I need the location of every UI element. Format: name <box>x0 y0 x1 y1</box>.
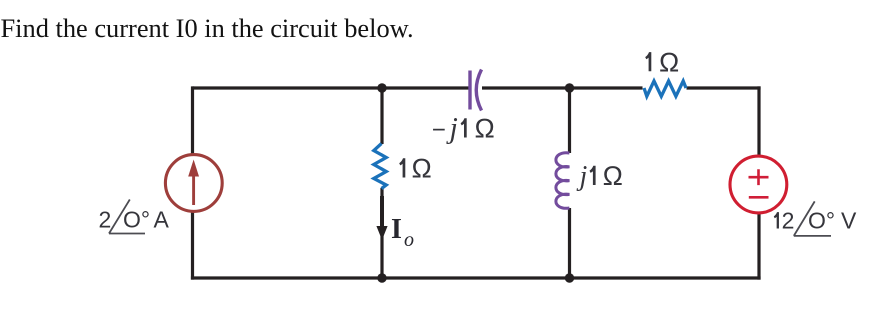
wire bottom <box>191 276 761 279</box>
capacitor C1 curved right plate <box>476 70 481 111</box>
svg-text:2: 2 <box>99 207 112 233</box>
svg-text:o: o <box>404 229 414 251</box>
node dot bottom of branch 1 <box>377 273 386 282</box>
svg-text:2: 2 <box>782 208 795 234</box>
svg-text:j: j <box>577 161 588 192</box>
wire top-right segment (resistor R2 to corner) <box>687 86 761 89</box>
svg-text:Ω: Ω <box>659 47 680 77</box>
wire branch 1 upper (above resistor R1) <box>380 88 383 144</box>
svg-text:O°: O° <box>123 207 150 233</box>
label j1 ohm (inductor) <box>577 161 624 192</box>
svg-text:V: V <box>841 208 857 234</box>
wire branch 2 lower (below inductor) <box>568 208 571 278</box>
label 2 angle 0 A <box>99 200 170 234</box>
inductor L1 (purple coil) <box>556 153 570 208</box>
svg-text:Find the current I0 in the cir: Find the current I0 in the circuit below… <box>1 13 414 43</box>
svg-text:−: − <box>432 117 446 144</box>
svg-text:Ω: Ω <box>602 161 623 191</box>
voltage source plus sign <box>749 169 769 185</box>
svg-text:O°: O° <box>808 208 835 234</box>
svg-text:I: I <box>391 214 402 245</box>
node dot bottom of branch 2 <box>565 273 574 282</box>
wire branch 1 lower (below resistor R1, through Io arrow) <box>380 188 383 278</box>
svg-text:Ω: Ω <box>474 114 495 144</box>
node dot top of branch 2 <box>565 83 574 92</box>
label 12 angle 0 V <box>774 201 857 236</box>
voltage source circle <box>730 156 787 213</box>
wire right vertical above voltage source <box>757 86 760 156</box>
svg-text:j: j <box>446 112 458 145</box>
current source arrow <box>188 160 199 206</box>
node dot top of branch 1 <box>377 83 386 92</box>
capacitor C1 (purple) left plate <box>468 71 471 110</box>
resistor R1 1ohm vertical (blue zigzag) <box>374 144 386 189</box>
label -j1 ohm (capacitor) <box>432 112 495 145</box>
wire left vertical below current source <box>191 211 194 279</box>
svg-text:Ω: Ω <box>411 154 432 184</box>
wire top-middle segment (capacitor right plate to resistor R2) <box>482 86 643 89</box>
current source circle <box>165 155 222 212</box>
resistor R2 1ohm horizontal (blue zigzag) <box>644 81 686 96</box>
wire top-left segment <box>193 86 471 89</box>
Io arrow on branch 1 <box>376 196 387 240</box>
wire branch 2 upper (above inductor) <box>568 88 571 153</box>
label 1 ohm (horizontal resistor) <box>645 52 651 71</box>
wire left vertical above current source <box>191 86 194 154</box>
voltage source minus sign <box>749 196 769 199</box>
svg-text:A: A <box>154 207 170 233</box>
wire right vertical below voltage source <box>757 213 760 280</box>
label 1 ohm (vertical resistor) <box>399 158 405 177</box>
